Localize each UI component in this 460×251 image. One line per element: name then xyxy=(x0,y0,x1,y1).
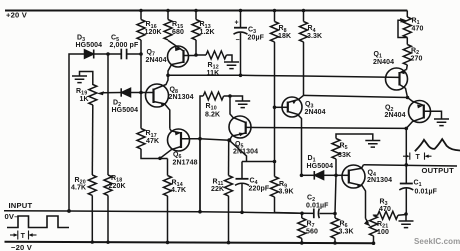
resistor R4 xyxy=(303,11,305,22)
node: D1/R5/Q4 base dot xyxy=(334,174,338,178)
resistor R11 xyxy=(228,140,230,175)
resistor R12 (horizontal) xyxy=(196,54,206,56)
svg-text:3.9K: 3.9K xyxy=(279,188,294,195)
svg-text:3.3K: 3.3K xyxy=(307,33,322,40)
svg-text:T: T xyxy=(416,154,421,161)
node: rail dot R15 xyxy=(166,9,170,13)
transistor Q6 xyxy=(160,129,200,159)
svg-text:INPUT: INPUT xyxy=(9,201,33,210)
resistor R19 (1K pot) xyxy=(89,85,97,105)
resistor R7 xyxy=(301,213,303,218)
resistor R5 xyxy=(336,134,373,175)
input T dimension marks xyxy=(10,231,37,240)
wire: output tap down to output line xyxy=(405,128,407,165)
node: Q6 collector / R17 jog dot xyxy=(158,157,162,161)
R1 wiper loop xyxy=(398,20,407,37)
+20V rail xyxy=(5,10,407,12)
node: D2/R16/R17/Q8-base junction xyxy=(139,91,143,95)
wire: R19 bottom to R20 xyxy=(91,105,94,175)
Q8 emitter arrow (NPN out) xyxy=(160,102,165,106)
resistor R21 (100 pot) xyxy=(370,216,378,236)
R19 wiper arrow xyxy=(97,91,104,95)
node: D1 left dot xyxy=(300,174,304,178)
node: R10/ground/Q5-collector dot xyxy=(228,94,232,98)
svg-text:3.3K: 3.3K xyxy=(339,228,354,235)
node: output line dot xyxy=(405,163,409,167)
resistor R3 (horizontal 470) xyxy=(374,214,378,216)
wire: C4/R9 top wire xyxy=(242,161,275,163)
svg-text:2N1304: 2N1304 xyxy=(367,177,392,184)
svg-text:R10: R10 xyxy=(206,103,217,112)
Q2 emitter arrow (PNP in) xyxy=(417,105,423,109)
node: C5/R16 junction dot xyxy=(139,52,143,56)
svg-text:2N404: 2N404 xyxy=(146,57,167,64)
ground (R19 top) xyxy=(80,72,93,86)
R21 wiper arrow from Q4 emitter xyxy=(366,219,369,223)
capacitor C3 (electrolytic) xyxy=(234,11,248,76)
svg-text:470: 470 xyxy=(412,25,424,32)
Q4 emitter arrow (NPN out) xyxy=(357,184,363,188)
Q3 emitter arrow (PNP in) xyxy=(292,100,297,105)
node: R7/C2 left/input dot xyxy=(300,212,304,216)
wire: R16 bottom to D2 node xyxy=(140,54,142,93)
wire: R6 node up to D1/R5/Q4 node xyxy=(335,175,336,213)
node: Q3 base dot xyxy=(273,106,277,110)
resistor R10 (horizontal) + left vertical xyxy=(200,96,203,212)
svg-text:20µF: 20µF xyxy=(248,34,265,41)
resistor R18 xyxy=(104,175,112,195)
svg-text:R5: R5 xyxy=(340,142,348,151)
node: input line tap dot xyxy=(198,210,202,214)
svg-text:33K: 33K xyxy=(338,152,351,159)
node: Q7 base / R13 / R12 dot xyxy=(194,53,198,57)
resistor R15 xyxy=(167,11,169,20)
Q6 emitter arrow (PNP in) xyxy=(175,132,181,136)
transistor Q7 xyxy=(168,40,197,75)
node: input line dot (left tap) xyxy=(67,209,71,213)
svg-text:2N404: 2N404 xyxy=(305,109,326,116)
input square wave xyxy=(7,216,69,228)
wire: input tap down from Q6 base node xyxy=(199,139,201,212)
svg-text:2N404: 2N404 xyxy=(373,59,394,66)
output T dimension marks xyxy=(403,153,432,160)
svg-text:+20 V: +20 V xyxy=(6,10,28,19)
svg-text:C1: C1 xyxy=(414,179,422,188)
svg-text:2N1748: 2N1748 xyxy=(173,160,198,167)
node: R10 vertical / Q6 base dot xyxy=(198,137,202,141)
ground (Q2 base) xyxy=(434,119,449,126)
resistor R9 xyxy=(274,162,276,177)
resistor R20 xyxy=(88,175,96,195)
resistor R8 xyxy=(274,11,276,22)
node: rail dots bottom xyxy=(91,240,94,243)
resistor R14 xyxy=(164,176,172,196)
input line xyxy=(4,211,335,214)
resistor R2 xyxy=(406,37,408,44)
svg-text:T: T xyxy=(21,233,26,240)
resistor R16 xyxy=(140,11,142,20)
svg-text:0.01µF: 0.01µF xyxy=(306,202,329,209)
svg-text:−: − xyxy=(236,37,240,44)
transistor Q3 xyxy=(275,95,304,175)
-20V rail xyxy=(5,242,374,243)
capacitor C1 xyxy=(399,165,413,214)
node: R9 top dot xyxy=(273,160,277,164)
svg-text:+: + xyxy=(235,20,239,27)
svg-text:HG5004: HG5004 xyxy=(112,107,139,114)
svg-text:560: 560 xyxy=(306,228,318,235)
resistor R13 xyxy=(195,11,197,20)
svg-text:470: 470 xyxy=(379,206,391,213)
node: D3/C5 junction dot xyxy=(106,52,110,56)
node: rail dot R13 xyxy=(194,9,198,13)
Q5 emitter arrow xyxy=(239,133,245,137)
ground (R5 wire) xyxy=(365,141,380,148)
svg-text:4.7K: 4.7K xyxy=(171,187,186,194)
wire: R8 bottom to Q3 base node and on to R9 node xyxy=(274,42,276,162)
wire: collector bus to Q1 base xyxy=(168,75,399,77)
transistor Q5 xyxy=(229,96,406,140)
svg-text:18K: 18K xyxy=(278,33,291,40)
node: rail dot R4 xyxy=(302,9,306,13)
svg-text:4.7K: 4.7K xyxy=(71,184,86,191)
transistor Q1 xyxy=(386,68,408,98)
svg-text:−20 V: −20 V xyxy=(11,243,33,251)
svg-text:220pF: 220pF xyxy=(249,185,270,192)
svg-text:120K: 120K xyxy=(145,29,162,36)
capacitor C2 xyxy=(314,209,320,219)
node: Q5 emitter / R11 dot xyxy=(227,138,231,142)
svg-text:1K: 1K xyxy=(80,96,89,103)
svg-text:0.01µF: 0.01µF xyxy=(415,188,438,195)
svg-text:47K: 47K xyxy=(146,138,159,145)
Q1 emitter arrow (PNP in) xyxy=(400,70,405,74)
wire: jog down to R14 xyxy=(167,159,169,176)
node: Q2 collector / output tap dot xyxy=(405,127,409,131)
svg-text:2,000 pF: 2,000 pF xyxy=(110,42,139,49)
wire: output line xyxy=(364,165,458,166)
transistor Q8 xyxy=(141,75,170,129)
node: Q7/Q8 collector junction xyxy=(166,74,170,78)
capacitor C4 xyxy=(235,162,249,213)
wire: Q3 emitter/R4 to Q2 emitter node xyxy=(304,95,408,97)
wire: input line R9 to C2 xyxy=(275,212,303,215)
node: Q1 collector / Q2 emitter dot xyxy=(406,96,410,100)
ground (R12) xyxy=(224,62,239,69)
ground (Q5 collector) xyxy=(230,96,243,101)
node: rail dot C3 xyxy=(239,9,243,13)
resistor R17 xyxy=(140,93,142,129)
svg-text:270: 270 xyxy=(411,55,423,62)
wire: R18 feed vertical (node to R18) xyxy=(107,54,109,175)
svg-text:0V–: 0V– xyxy=(5,212,19,221)
svg-text:HG5004: HG5004 xyxy=(76,42,103,49)
wire: Q5 emitter diagonal to C4/R9 wire xyxy=(229,140,246,161)
Q7 emitter arrow xyxy=(175,47,181,51)
capacitor C5 xyxy=(108,49,142,60)
node: C2 right / R6 top dot xyxy=(333,212,337,216)
wire: D3 anode line + left drop to input line xyxy=(69,54,85,211)
node: C3 minus / bus dot xyxy=(239,74,243,78)
svg-text:22K: 22K xyxy=(211,186,224,193)
svg-text:8.2K: 8.2K xyxy=(205,111,220,118)
svg-text:100: 100 xyxy=(377,229,389,236)
svg-text:2N404: 2N404 xyxy=(385,112,406,119)
svg-text:220K: 220K xyxy=(109,183,126,190)
node: rail dot R8 xyxy=(273,9,277,13)
svg-text:1.2K: 1.2K xyxy=(200,29,215,36)
svg-text:2N1304: 2N1304 xyxy=(169,94,194,101)
output waveform xyxy=(415,139,460,151)
diode D1 xyxy=(302,171,337,180)
transistor Q2 xyxy=(406,98,441,129)
node: rail dot R16 xyxy=(139,9,143,13)
transistor Q4 xyxy=(336,165,366,219)
svg-text:OUTPUT: OUTPUT xyxy=(422,166,455,175)
diode D3 xyxy=(85,50,108,59)
svg-text:680: 680 xyxy=(172,29,184,36)
resistor R1 (470 pot) xyxy=(406,11,408,18)
svg-text:HG5004: HG5004 xyxy=(307,163,334,170)
node: C4 bottom / input line dot xyxy=(240,211,244,215)
diode D2 xyxy=(121,88,141,96)
wire: Q6 base bus xyxy=(200,139,229,141)
resistor R6 xyxy=(334,214,336,219)
node: R3/C1/ground dot xyxy=(404,212,408,216)
svg-text:SeekIC.com: SeekIC.com xyxy=(414,237,460,246)
ground (C1/R3) xyxy=(405,214,407,221)
